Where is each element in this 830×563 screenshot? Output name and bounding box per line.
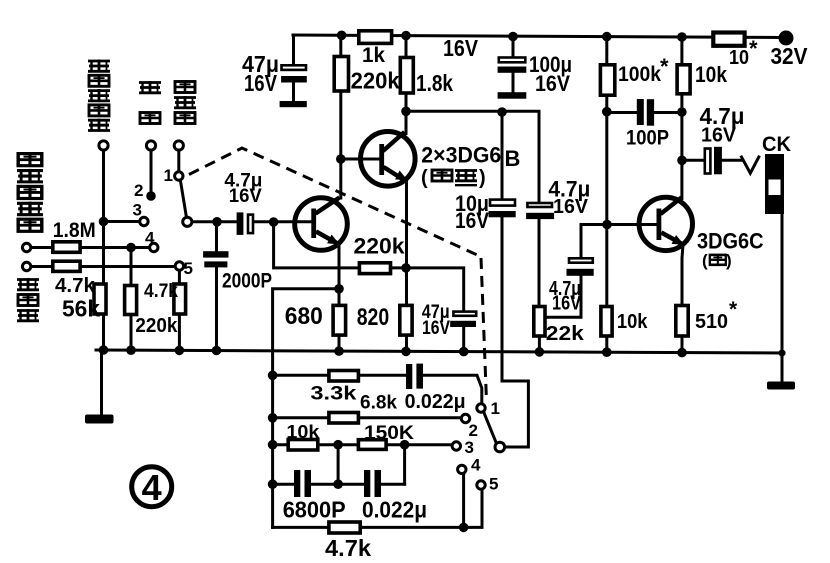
svg-text:16V: 16V <box>701 125 737 147</box>
svg-text:100P: 100P <box>626 127 669 150</box>
svg-text:2×3DG6: 2×3DG6 <box>421 143 501 168</box>
svg-text:4.7k: 4.7k <box>144 281 178 302</box>
svg-text:2000P: 2000P <box>222 270 272 293</box>
svg-text:4: 4 <box>471 456 481 475</box>
svg-text:*: * <box>729 298 738 321</box>
svg-text:*: * <box>660 54 669 79</box>
svg-text:3: 3 <box>133 201 142 220</box>
svg-text:220k: 220k <box>354 234 406 259</box>
svg-text:10: 10 <box>729 47 749 69</box>
svg-text:1.8M: 1.8M <box>53 219 96 242</box>
svg-text:220k: 220k <box>135 315 178 337</box>
svg-text:22k: 22k <box>546 323 585 345</box>
svg-text:*: * <box>749 36 758 61</box>
svg-text:100k: 100k <box>618 63 661 86</box>
svg-text:16V: 16V <box>422 318 450 339</box>
svg-text:32V: 32V <box>771 43 809 69</box>
svg-text:16V: 16V <box>443 35 479 61</box>
svg-text:1.8k: 1.8k <box>416 70 453 96</box>
svg-text:150K: 150K <box>364 423 414 444</box>
svg-text:5: 5 <box>489 475 498 494</box>
svg-text:16V: 16V <box>229 186 262 207</box>
svg-text:4: 4 <box>142 467 162 508</box>
svg-text:2: 2 <box>134 181 143 200</box>
svg-text:510: 510 <box>695 311 728 333</box>
svg-text:6.8k: 6.8k <box>360 393 397 414</box>
svg-text:16V: 16V <box>535 71 570 96</box>
svg-text:16V: 16V <box>244 70 278 96</box>
svg-text:4.7k: 4.7k <box>55 275 96 297</box>
svg-text:5: 5 <box>184 259 193 278</box>
svg-text:1: 1 <box>164 166 173 185</box>
svg-text:56k: 56k <box>62 296 100 322</box>
svg-text:(: ( <box>421 167 428 189</box>
svg-text:): ) <box>479 167 486 189</box>
svg-text:220k: 220k <box>351 68 400 94</box>
svg-text:0.022μ: 0.022μ <box>405 391 466 413</box>
svg-text:4.7k: 4.7k <box>325 535 371 561</box>
svg-text:1: 1 <box>491 399 500 418</box>
svg-text:10k: 10k <box>695 62 728 87</box>
svg-text:16V: 16V <box>552 293 582 315</box>
svg-text:16V: 16V <box>455 208 489 233</box>
svg-text:B: B <box>505 146 521 171</box>
svg-text:(: ( <box>702 251 708 270</box>
svg-text:0.022μ: 0.022μ <box>362 497 427 523</box>
svg-text:10k: 10k <box>617 311 648 333</box>
svg-text:1k: 1k <box>362 44 385 67</box>
svg-text:CK: CK <box>762 133 791 156</box>
svg-text:3: 3 <box>465 438 474 457</box>
svg-text:3.3k: 3.3k <box>310 383 357 404</box>
svg-text:4: 4 <box>145 229 155 248</box>
svg-text:3DG6C: 3DG6C <box>697 228 764 253</box>
svg-text:6800P: 6800P <box>283 497 346 523</box>
svg-text:680: 680 <box>285 303 323 330</box>
svg-text:820: 820 <box>357 304 390 331</box>
svg-text:16V: 16V <box>553 196 589 218</box>
svg-text:10k: 10k <box>286 422 320 442</box>
